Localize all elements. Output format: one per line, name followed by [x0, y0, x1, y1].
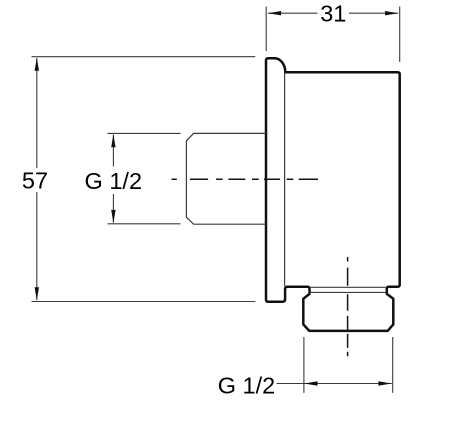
dimension line socket top part — [112, 135, 114, 167]
dimension line nipple with leader — [277, 383, 392, 385]
extension line right of nipple dim — [392, 337, 394, 393]
arrow 57 down — [35, 287, 39, 300]
svg-text:G 1/2: G 1/2 — [218, 372, 275, 398]
dimension line 31 right part — [349, 12, 398, 14]
vertical centerline — [347, 257, 349, 356]
svg-text:G 1/2: G 1/2 — [85, 168, 142, 194]
arrow 57 up — [35, 58, 39, 71]
dimension line 31 left part — [268, 12, 318, 14]
extension line left of dim 31 — [265, 7, 267, 52]
body bottom edge across nipple — [311, 286, 386, 288]
dimension line 57 bottom part — [36, 192, 38, 300]
extension line top of socket dim — [108, 132, 181, 134]
arrow socket up — [111, 134, 115, 147]
socket profile G1/2 — [186, 133, 266, 224]
arrow nipple left — [304, 381, 317, 385]
arrow 31 right — [385, 11, 398, 15]
flange-body junction line — [284, 73, 286, 286]
svg-text:57: 57 — [22, 168, 48, 194]
extension line top of dim 57 — [32, 56, 256, 58]
arrow socket down — [111, 210, 115, 223]
svg-text:31: 31 — [320, 1, 346, 27]
extension line right of dim 31 — [399, 7, 401, 63]
extension line bottom of socket dim — [108, 223, 181, 225]
body outline (flange + body + G1/2 nipple) — [266, 58, 400, 331]
arrow nipple right — [378, 381, 391, 385]
nipple shoulder edge — [310, 291, 387, 293]
extension line bottom of dim 57 — [32, 301, 256, 303]
arrow 31 left — [268, 11, 281, 15]
extension line left of nipple dim — [303, 337, 305, 393]
dimension line socket bottom part — [112, 194, 114, 223]
horizontal centerline — [172, 178, 319, 180]
dimension line 57 top part — [36, 58, 38, 168]
